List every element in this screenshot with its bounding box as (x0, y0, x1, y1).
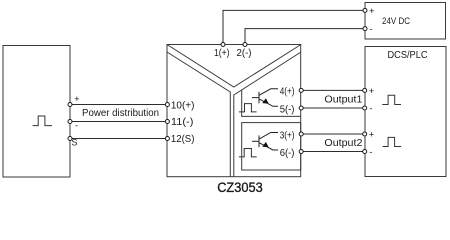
isolation barrier left lower line and left vertical (167, 52, 230, 177)
wire power + : left device to terminal 10 (70, 104, 167, 106)
terminal circle 10 (165, 103, 169, 107)
pulse symbol DCS channel 2 (383, 137, 402, 146)
svg-text:24V DC: 24V DC (382, 16, 410, 27)
svg-text:-: - (370, 24, 373, 35)
svg-text:Power distribution: Power distribution (82, 108, 159, 119)
terminal circle DCS in2 + (363, 132, 367, 136)
output channel 2 sub-box (242, 123, 301, 170)
svg-text:-: - (369, 103, 372, 114)
DCS/PLC box (365, 47, 446, 177)
terminal circle 24VDC + (363, 8, 367, 12)
terminal circle DCS in1 - (363, 106, 367, 110)
svg-text:-: - (75, 120, 78, 130)
pulse symbol DCS channel 1 (382, 95, 401, 104)
svg-text:-: - (369, 147, 372, 158)
output channel 1 sub-box (242, 90, 301, 117)
terminal circle left device - (68, 120, 72, 124)
terminal circle left device + (68, 103, 72, 107)
svg-text:10(+): 10(+) (171, 100, 195, 111)
svg-text:+: + (369, 6, 375, 17)
svg-text:11(-): 11(-) (171, 117, 194, 128)
wire supply - : terminal 2 to 24VDC - (245, 29, 365, 45)
svg-text:+: + (369, 86, 375, 97)
pulse signal symbol in left device (33, 116, 52, 126)
wire output1 + : terminal 4 to DCS (301, 89, 365, 91)
terminal circle 4 (299, 88, 303, 92)
transistor Q2 output channel 2 (252, 133, 278, 151)
left field device box (3, 46, 70, 178)
pulse symbol channel 1 (239, 104, 257, 112)
svg-text:DCS/PLC: DCS/PLC (388, 50, 428, 61)
terminal circle left device S (68, 137, 72, 141)
terminal circle 2 (243, 43, 247, 47)
svg-text:12(S): 12(S) (171, 134, 195, 145)
isolator CZ3053 outer body (167, 45, 301, 177)
isolation barrier right lower line and right vertical (234, 52, 301, 177)
svg-text:CZ3053: CZ3053 (217, 179, 263, 195)
svg-text:+: + (369, 130, 375, 141)
transistor Q1 output channel 1 (252, 89, 278, 107)
terminal circle 6 (299, 150, 303, 154)
terminal circle 3 (299, 132, 303, 136)
terminal circle DCS in1 + (363, 88, 367, 92)
pulse symbol channel 2 (239, 149, 257, 157)
svg-text:Output1: Output1 (324, 95, 362, 106)
wire output2 + : terminal 3 to DCS (301, 133, 365, 135)
svg-text:3(+): 3(+) (280, 131, 295, 142)
svg-text:1(+): 1(+) (214, 48, 230, 59)
svg-text:+: + (74, 94, 79, 104)
wire output1 - : terminal 5 to DCS (301, 107, 365, 109)
wire output2 - : terminal 6 to DCS (301, 151, 365, 153)
svg-text:2(-): 2(-) (237, 48, 252, 59)
terminal circle 5 (299, 106, 303, 110)
wire shield S : left device to terminal 12 (70, 138, 167, 140)
terminal circle DCS in2 - (363, 150, 367, 154)
terminal circle 11 (165, 120, 169, 124)
svg-text:6(-): 6(-) (280, 148, 295, 159)
wire power - : left device to terminal 11 (70, 121, 167, 123)
wire supply + : terminal 1 to 24VDC + (223, 10, 365, 44)
24V DC supply box (365, 3, 446, 40)
terminal circle 24VDC - (363, 27, 367, 31)
svg-text:5(-): 5(-) (280, 104, 295, 115)
terminal circle 1 (221, 43, 225, 47)
terminal circle 12 (165, 137, 169, 141)
svg-text:4(+): 4(+) (280, 87, 295, 98)
isolation barrier Y upper line (167, 45, 301, 88)
svg-text:Output2: Output2 (324, 138, 362, 149)
